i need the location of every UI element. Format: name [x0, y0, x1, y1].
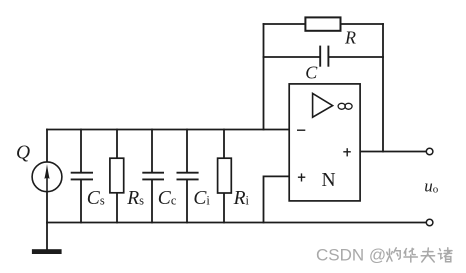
wire feedback left vertical: [263, 24, 265, 130]
capacitor C (feedback): [320, 46, 328, 67]
terminal output bottom: [426, 219, 433, 226]
watermark char fu: [421, 248, 434, 262]
wire non-inverting input: [264, 176, 290, 222]
svg-text:Rs: Rs: [126, 188, 144, 209]
op-amp triangle: [313, 93, 333, 117]
pin plus (input): [298, 173, 305, 181]
pin minus: [297, 129, 305, 131]
svg-text:Ci: Ci: [193, 188, 210, 209]
wire feedback top (R net): [264, 23, 384, 25]
svg-text:Ri: Ri: [233, 188, 250, 209]
wire output: [360, 151, 426, 153]
label infinity: [338, 103, 352, 109]
capacitor Cs: [71, 173, 93, 180]
capacitor Ci: [177, 173, 199, 180]
wire ground stem: [46, 223, 48, 250]
svg-text:N: N: [322, 170, 336, 191]
svg-text:Q: Q: [16, 142, 30, 163]
svg-text:Cs: Cs: [87, 188, 105, 209]
svg-text:uo: uo: [424, 177, 439, 196]
wire left branch vertical: [46, 130, 48, 223]
wire Cs branch: [80, 130, 82, 223]
wire top bus (inverting input net): [47, 129, 290, 131]
svg-text:Cc: Cc: [158, 188, 177, 209]
wire Ri branch: [223, 130, 225, 223]
wire Rs branch: [116, 130, 118, 223]
resistor R (feedback): [305, 17, 340, 30]
watermark char zhu: [438, 248, 452, 262]
terminal output top: [426, 148, 433, 155]
wire Cc branch: [151, 130, 153, 223]
op-amp U1 (block N): [289, 84, 360, 201]
capacitor Cc: [142, 173, 164, 180]
ground: [32, 249, 62, 254]
wire Ci branch: [186, 130, 188, 223]
watermark char zhuo: [387, 248, 400, 262]
pin plus (output): [343, 148, 351, 156]
svg-text:CSDN @: CSDN @: [316, 246, 386, 265]
wire feedback middle (C net): [264, 56, 384, 58]
resistor Ri: [218, 158, 232, 193]
svg-text:C: C: [305, 62, 318, 82]
current source Q: [32, 162, 62, 192]
svg-text:R: R: [344, 28, 356, 48]
wire feedback right vertical: [382, 24, 384, 152]
watermark char hua: [404, 248, 417, 262]
resistor Rs: [110, 158, 124, 193]
wire bottom bus (ground net): [47, 222, 426, 224]
